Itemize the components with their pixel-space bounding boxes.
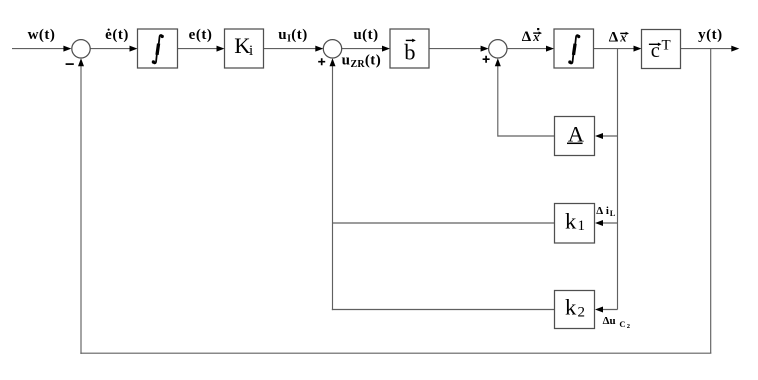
- svg-text:2: 2: [578, 304, 586, 320]
- svg-text:Δ: Δ: [522, 29, 532, 45]
- svg-text:Δu: Δu: [603, 315, 616, 327]
- svg-text:T: T: [662, 38, 671, 54]
- svg-text:b: b: [404, 40, 415, 65]
- svg-text:y(t): y(t): [698, 27, 723, 43]
- svg-text:1: 1: [578, 218, 586, 234]
- svg-text:i: i: [606, 205, 609, 217]
- svg-text:x: x: [532, 30, 539, 44]
- svg-text:uI(t): uI(t): [278, 27, 307, 45]
- svg-text:k: k: [565, 295, 577, 320]
- svg-text:i: i: [249, 43, 253, 59]
- svg-text:Δ: Δ: [609, 29, 619, 45]
- svg-text:e(t): e(t): [189, 27, 213, 43]
- svg-text:w(t): w(t): [28, 27, 56, 43]
- svg-text:u(t): u(t): [353, 27, 378, 43]
- svg-text:x: x: [619, 30, 626, 44]
- svg-text:k: k: [565, 208, 577, 233]
- svg-text:Δ: Δ: [596, 205, 603, 217]
- svg-text:C: C: [619, 319, 625, 329]
- svg-text:2: 2: [627, 323, 630, 330]
- svg-text:ė(t): ė(t): [105, 27, 129, 43]
- svg-text:L: L: [610, 208, 616, 218]
